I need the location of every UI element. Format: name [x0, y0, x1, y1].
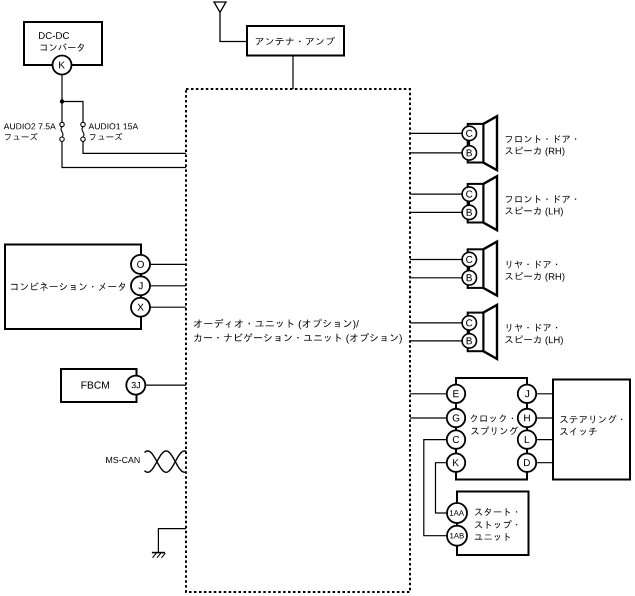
- wire junction to AUDIO1 fuse: [62, 102, 83, 123]
- label front door speaker LH line2: [505, 207, 563, 217]
- combination meter box: [5, 245, 141, 330]
- speaker icon front door speaker RH: [468, 116, 497, 170]
- ground: [152, 553, 165, 558]
- antenna amp box: [247, 26, 344, 56]
- wire AUDIO2 fuse to unit: [62, 141, 186, 167]
- terminal O (meter): [131, 255, 150, 274]
- wire 3J to unit: [145, 384, 186, 386]
- steering switch box: [553, 380, 630, 480]
- wire unit to front door speaker RH B: [410, 152, 462, 154]
- wire L to steering switch: [536, 439, 553, 441]
- wire unit to rear door speaker LH B: [410, 340, 462, 342]
- wire unit to rear door speaker RH B: [410, 277, 462, 279]
- wire J to steering switch: [536, 393, 553, 395]
- label audio unit line2: [194, 333, 402, 344]
- terminal C rear door speaker RH: [462, 252, 476, 266]
- wire K to junction: [61, 75, 63, 102]
- fuse AUDIO2 7.5A: [60, 122, 64, 141]
- wire unit to rear door speaker LH C: [410, 322, 462, 324]
- terminal B rear door speaker LH: [462, 334, 476, 348]
- wire X to unit: [150, 306, 186, 308]
- label rear door speaker LH line1: [507, 324, 557, 332]
- start-stop unit box: [457, 492, 529, 556]
- speaker icon front door speaker LH: [468, 176, 497, 230]
- terminal C front door speaker RH: [462, 126, 476, 140]
- terminal H (clock spring): [518, 409, 536, 427]
- label clock spring line1: [471, 415, 513, 423]
- terminal 3J (FBCM): [126, 376, 145, 395]
- wire D to steering switch: [536, 462, 553, 464]
- label start-stop line3: [475, 533, 510, 541]
- label combination meter: [11, 282, 125, 291]
- label AUDIO1 fuse line1: [89, 123, 139, 129]
- wire unit to front door speaker RH C: [410, 132, 462, 134]
- label DC-DC line1: [39, 32, 69, 39]
- label antenna amp: [256, 37, 335, 46]
- speaker icon rear door speaker RH: [468, 242, 497, 296]
- label front door speaker RH line1: [506, 135, 576, 143]
- label front door speaker LH line1: [506, 195, 576, 203]
- wire unit to ground: [158, 529, 186, 553]
- terminal C rear door speaker LH: [462, 316, 476, 330]
- terminal D (clock spring): [518, 454, 536, 472]
- terminal 1AB (start-stop): [447, 526, 467, 546]
- label MS-CAN: [106, 457, 139, 463]
- wire unit to front door speaker LH C: [410, 193, 462, 195]
- label clock spring line2: [471, 426, 518, 435]
- label start-stop line1: [475, 508, 517, 516]
- wire J to unit: [150, 285, 186, 287]
- wire K(clock spring) to 1AA: [436, 463, 448, 513]
- antenna: [214, 2, 226, 12]
- FBCM box: [61, 369, 137, 402]
- label AUDIO2 fuse line1: [4, 123, 56, 129]
- label rear door speaker RH line2: [505, 272, 564, 282]
- wire unit to E: [410, 393, 447, 395]
- junction dot: [60, 99, 64, 103]
- label AUDIO1 fuse line2: [90, 133, 123, 140]
- wire unit to rear door speaker RH C: [410, 259, 462, 261]
- DC-DC converter box: [24, 22, 102, 65]
- wire unit to front door speaker LH B: [410, 211, 462, 213]
- terminal B front door speaker LH: [462, 205, 476, 219]
- audio/navigation unit box (dashed): [186, 89, 410, 592]
- wire AUDIO1 fuse to unit: [83, 141, 186, 153]
- label start-stop line2: [475, 520, 517, 529]
- MS-CAN twisted pair: [145, 451, 187, 472]
- terminal G (clock spring): [447, 409, 465, 427]
- label AUDIO2 fuse line2: [5, 133, 38, 140]
- wire antenna to amp: [220, 12, 247, 41]
- label DC-DC line2: [41, 43, 84, 51]
- terminal E (clock spring): [447, 385, 465, 403]
- terminal L (clock spring): [518, 430, 536, 448]
- terminal B rear door speaker RH: [462, 271, 476, 285]
- terminal X (meter): [131, 298, 150, 317]
- label rear door speaker LH line2: [505, 335, 563, 345]
- terminal 1AA (start-stop): [447, 503, 467, 523]
- label rear door speaker RH line1: [507, 261, 557, 269]
- wire H to steering switch: [536, 417, 553, 419]
- speaker icon rear door speaker LH: [468, 305, 497, 359]
- terminal K (clock spring): [447, 454, 465, 472]
- terminal J (meter): [131, 276, 150, 295]
- terminal B front door speaker RH: [462, 146, 476, 160]
- wire antenna amp to unit: [292, 56, 294, 90]
- terminal J (clock spring): [518, 385, 536, 403]
- label steering switch line2: [560, 428, 597, 436]
- wire junction to AUDIO2 fuse: [61, 102, 63, 123]
- label front door speaker RH line2: [505, 147, 564, 157]
- wire C to 1AB: [424, 440, 447, 536]
- label FBCM: [82, 381, 110, 388]
- label steering switch line1: [560, 415, 622, 424]
- label audio unit line1: [194, 319, 359, 330]
- wire unit to G: [410, 417, 447, 419]
- terminal K (DC-DC): [53, 56, 72, 75]
- terminal C front door speaker LH: [462, 187, 476, 201]
- wire O to unit: [150, 263, 186, 265]
- fuse AUDIO1 15A: [81, 122, 85, 141]
- clock spring box: [456, 378, 527, 480]
- terminal C (clock spring): [447, 430, 465, 448]
